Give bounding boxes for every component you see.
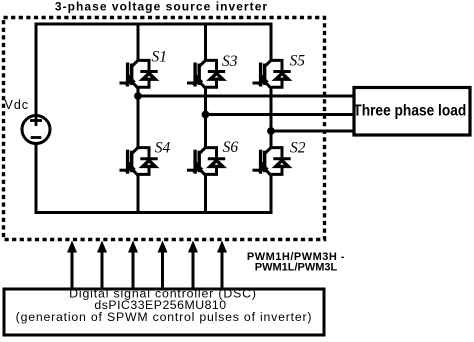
IGBT switch S5	[253, 60, 291, 89]
wire: leg1 collector drop from top rail	[137, 23, 140, 60]
wire: leg1 middle segment	[137, 88, 140, 148]
arrow: gate pulse 5	[188, 241, 198, 288]
arrow: gate pulse 3	[128, 241, 138, 288]
wire: leg3 middle segment	[270, 88, 273, 148]
wire: bottom DC rail	[35, 211, 273, 214]
svg-text:S2: S2	[290, 140, 306, 157]
wire: phase A output line	[138, 95, 353, 98]
svg-text:S4: S4	[155, 139, 171, 156]
DC source Vdc	[22, 115, 50, 144]
block: three phase load box	[354, 88, 470, 136]
node: phase B junction	[202, 111, 210, 119]
IGBT switch S3	[187, 60, 225, 89]
arrow: gate pulse 4	[158, 241, 168, 288]
node: phase A junction	[134, 92, 142, 100]
svg-text:3-phase voltage source inverte: 3-phase voltage source inverter	[55, 0, 268, 14]
wire: leg2 emitter drop to bottom rail	[204, 175, 207, 214]
wire: leg3 collector drop from top rail	[270, 23, 273, 60]
wire: phase C output line	[271, 130, 353, 133]
svg-text:Three phase load: Three phase load	[353, 103, 466, 120]
wire: left DC bus upper segment	[35, 23, 38, 115]
wire: leg3 emitter drop to bottom rail	[270, 175, 273, 214]
svg-text:(generation of SPWM control pu: (generation of SPWM control pulses of in…	[16, 310, 313, 324]
IGBT switch S6	[187, 147, 225, 176]
svg-text:S5: S5	[290, 53, 306, 70]
node: phase C junction	[267, 127, 275, 135]
svg-text:S1: S1	[152, 49, 168, 66]
wire: phase B output line	[206, 113, 354, 116]
svg-text:PWM1L/PWM3L: PWM1L/PWM3L	[255, 262, 338, 274]
arrow: gate pulse 1	[67, 241, 77, 288]
wire: leg2 collector drop from top rail	[204, 23, 207, 60]
wire: top DC rail	[35, 23, 273, 26]
arrow: gate pulse 2	[97, 241, 107, 288]
wire: leg2 middle segment	[204, 88, 207, 148]
block: digital signal controller box	[4, 289, 324, 335]
dashed inverter boundary box	[4, 18, 325, 240]
IGBT switch S4	[120, 147, 158, 176]
wire: leg1 emitter drop to bottom rail	[137, 175, 140, 214]
svg-text:Vdc: Vdc	[5, 98, 29, 112]
IGBT switch S1	[120, 60, 158, 89]
wire: left DC bus lower segment	[35, 144, 38, 214]
svg-text:S3: S3	[222, 53, 238, 70]
svg-text:S6: S6	[223, 139, 239, 156]
IGBT switch S2	[253, 147, 291, 176]
arrow: gate pulse 6	[217, 241, 227, 288]
